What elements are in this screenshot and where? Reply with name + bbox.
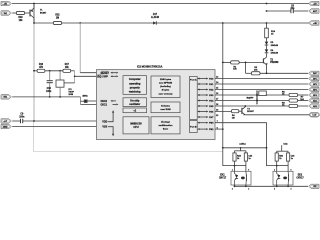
wire left RC rail [235,149,246,152]
wire jelzo stub [280,145,283,151]
wire right RC bottoms [275,161,278,166]
crystal Q1 [79,97,82,105]
wire bottom rail to connector [235,185,309,188]
svg-text:PN2369: PN2369 [270,62,279,64]
svg-text:oscillator: oscillator [129,103,140,106]
svg-text:GND: GND [3,126,8,128]
junction dot drop [245,62,247,64]
pin PA1 [200,82,207,85]
wire PB1 stub [215,128,223,131]
pin PA7 [200,115,207,118]
capacitor C9 [19,119,23,123]
connector tag K3 right [309,87,319,91]
svg-text:watchdog: watchdog [129,91,141,94]
svg-text:IC2 MC68HC705KJ1A: IC2 MC68HC705KJ1A [137,66,163,69]
diode D6 [265,49,269,52]
pin arrow VDD [108,113,113,122]
pin PA0 [200,77,207,80]
resistor R14 [265,23,268,28]
wire PA4 row [215,99,289,102]
junction dot EK1 pin2 [234,185,236,187]
junction dot rail right [266,147,268,149]
capacitor C18 [48,71,51,81]
wire VDD row [12,119,20,122]
resistor R8 [289,104,298,107]
connector tag LCD right wide [309,113,319,117]
wire PA1 row [215,82,308,85]
junction dot D-chain rail2 [266,22,268,24]
wire IC1 out [64,81,75,84]
svg-text:EK1: EK1 [220,174,225,176]
block 15-stage timer [151,117,180,134]
block Port B [190,121,198,133]
svg-text:CNY17: CNY17 [219,177,227,179]
wire right RC rail [277,150,288,153]
connector tag K0 right [309,71,319,75]
header aux box [259,91,267,96]
junction dot EK2 pin2 [276,185,278,187]
pin PB1 [200,128,207,131]
block M68HC05 CPU [123,117,149,134]
connector tag VE1 left [1,95,11,99]
svg-text:KI2: KI2 [313,186,316,188]
node +5V rail top [12,2,309,5]
wire +5V to VDD vertical [32,4,35,24]
junction dot IRQ tee [74,76,76,78]
wire row 70.8 left [34,69,37,72]
wire opto EK2 bottom pins [275,185,278,186]
svg-text:BC807: BC807 [40,13,47,15]
pin PA5 [200,104,207,107]
junction dot IC1 branch [59,70,61,72]
svg-text:IRQ/VPP: IRQ/VPP [247,97,255,99]
svg-text:CPU: CPU [133,126,138,129]
wire T2 base net [221,23,224,62]
connector tag GND left [1,124,11,128]
node rail2 [34,21,309,24]
wire R1 to T2 base [239,61,263,64]
wire D5 to D6 [265,46,268,50]
svg-text:100n: 100n [46,91,52,93]
junction dot EK2 pin4 [287,185,289,187]
wire R14 to D5 [265,38,268,42]
block user EPROM [151,76,180,98]
connector tag K6 right [309,104,319,108]
junction dot VDD x34 [33,120,35,122]
svg-text:EK2: EK2 [298,174,303,176]
pin arrow VSS [108,127,113,134]
wire D6 to T2 collector [265,53,268,55]
block Port A [190,77,198,120]
pin PA2 [200,88,207,91]
gray module frame [34,121,223,152]
svg-text:InSz: InSz [283,143,287,145]
junction dot C6 row [266,10,268,12]
junction dot T1 collector rail2 [33,22,35,24]
pin PB0 [200,121,207,124]
connector tag TA1 left [1,11,11,15]
wire R33 to T1 base [25,11,30,14]
resistor R7 [289,99,298,102]
svg-text:VDD: VDD [102,121,107,124]
junction dot stub [240,147,242,149]
junction dot EK1 pin4 [245,185,247,187]
junction dot R1 branch [222,22,224,24]
junction dot C18 gnd [49,96,51,98]
junction dot right opto anode [276,165,278,167]
optocoupler EK2 [273,171,293,185]
wire rail eszMsz [223,146,267,149]
connector tag +UE right [309,21,319,25]
wire PA3 row [215,93,289,96]
junction dot header row4 [256,94,258,96]
svg-text:Computer: Computer [129,78,141,81]
connector tag KI2 right bottom [309,184,319,188]
svg-text:SP2: SP2 [313,84,317,86]
svg-text:M68HC05: M68HC05 [130,122,142,125]
junction node RESET branch [79,22,81,24]
svg-text:TSOP: TSOP [68,92,74,94]
wire OSC1 [81,103,102,106]
junction dot IC1 gnd [59,96,61,98]
pin arrow OSC1 [113,103,117,106]
connector tag +UT left [1,119,11,123]
junction dot rail left [222,147,224,149]
junction dot header row5 [256,100,258,102]
svg-text:BC807: BC807 [247,111,254,113]
junction dot T1 emitter [33,3,35,5]
wire opto EK1 bottom pins [233,185,236,186]
capacitor C6 [289,9,293,13]
junction dot left opto anode [234,165,236,167]
svg-text:IRQ / VPP: IRQ / VPP [97,77,108,79]
diode D5 [265,42,269,45]
wire opto EK1 top pins [233,166,236,172]
svg-text:OSC2: OSC2 [100,100,107,103]
block user RAM [151,102,180,113]
connector tag K4 right [309,93,319,97]
junction dot T2 emitter [266,72,268,74]
connector tag K1 right [309,76,319,80]
block divide by 2 [123,108,147,113]
wire RC bottoms [233,161,236,166]
wire opto EK2 top pins [275,166,278,172]
resistor R17 [63,69,71,72]
connector tag ANT right [309,9,319,13]
resistor R32 [53,21,61,24]
resistor R24 [233,151,236,153]
junction dot rail1 right [266,3,268,5]
wire PA2 row [215,88,308,91]
wire RESET net [79,23,82,73]
svg-text:csM/sz: csM/sz [239,143,246,145]
connector tag K5 right [309,98,319,102]
svg-text:1M: 1M [232,117,235,119]
connector tag +5V left [1,1,11,5]
wire left opto feed vertical [223,62,235,165]
wire R4 to T3 base [239,110,242,113]
wire R16 to R17 [45,69,62,72]
wire IRQ net [71,69,75,72]
svg-text:LCD: LCD [313,115,317,117]
svg-text:On-chip: On-chip [130,100,140,103]
optocoupler EK1 [231,171,251,185]
wire PB0 net [215,123,277,166]
svg-text:100n: 100n [19,116,25,118]
pin arrow RESET [113,71,117,74]
wire T2 emitter row 73.3 [244,62,247,73]
wire PA5 row [215,104,289,107]
pin PA4 [200,99,207,102]
resistor R26 [275,151,278,153]
svg-text:CNY17: CNY17 [296,177,304,179]
connector tag +5V right [309,1,319,5]
wire T3 emitter row [245,113,309,116]
svg-text:user EPROM: user EPROM [159,83,172,85]
transistor T2 [261,58,265,63]
wire PA6 row to R4 [215,110,231,113]
svg-text:properly: properly [130,87,141,90]
transistor T3 [240,108,244,114]
wire csengo stub [239,148,242,151]
block COP watchdog [123,76,147,95]
block on-chip oscillator [123,98,147,107]
IC U1 MC68HC705KJ1 block [97,70,216,140]
junction dot C18 branch [49,70,51,72]
svg-text:RESET: RESET [101,72,110,75]
junction dot T3 collector [244,105,246,107]
svg-text:operating: operating [129,82,141,85]
wire VSS row [12,125,101,128]
connector tag K2 right [309,82,319,86]
svg-text:1M: 1M [56,17,59,19]
pin arrow OSC2 [113,99,117,102]
wire PA0 row [215,77,308,80]
wire tag2 to R33 [12,11,16,14]
wire C6 row [267,9,291,12]
resistor R33 [16,11,24,14]
capacitor C26 [287,151,290,153]
pin arrow IRQ [113,75,117,78]
junction dot T2 base tee [222,62,224,64]
capacitor C24 [244,151,247,153]
junction dot row70.8 at x34 [33,70,35,72]
resistor R2 [251,72,260,75]
resistor R1 [231,61,240,64]
diode D17 [153,21,156,24]
resistor R6 [289,93,298,96]
resistor R4 [231,110,238,113]
wire T3 collector to row PA5 [244,104,247,108]
junction dot PB1 vertical [222,128,224,130]
programming header Cs3 [255,91,260,105]
svg-text:SP3: SP3 [313,89,317,91]
wire OSC2 [87,99,101,102]
resistor R16 [37,69,45,72]
IR receiver IC1 [58,71,61,80]
svg-text:(including: (including [160,86,171,88]
transistor T1 [28,10,32,17]
svg-text:OSC1: OSC1 [100,104,107,107]
svg-text:VSS: VSS [102,126,107,129]
wire VE1 row [12,95,80,98]
pin PA6 [200,110,207,113]
pin PA3 [200,93,207,96]
svg-text:22p: 22p [290,8,295,10]
